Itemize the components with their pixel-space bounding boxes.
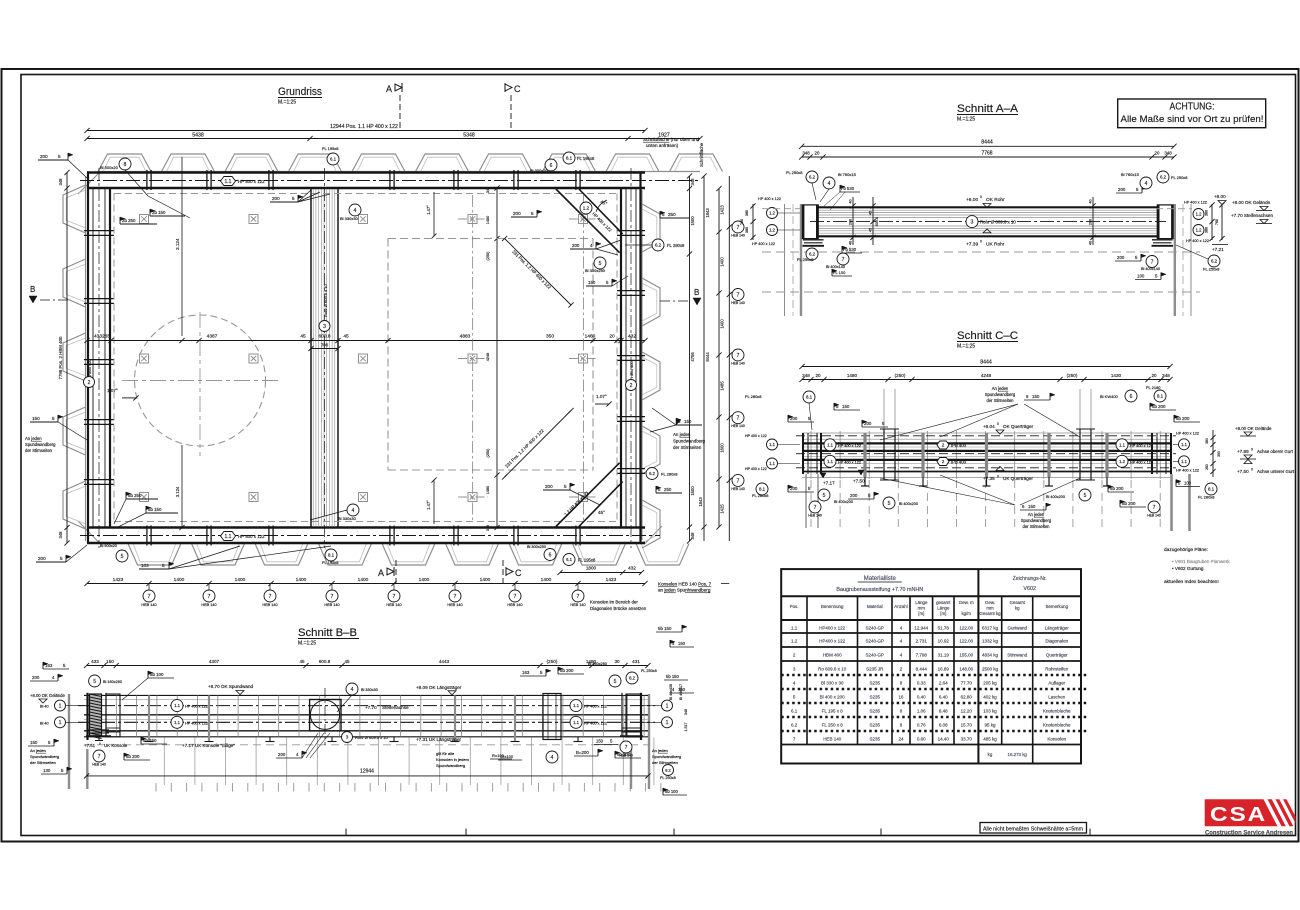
svg-text:348: 348 <box>58 531 63 539</box>
svg-text:1423: 1423 <box>720 205 725 215</box>
svg-text:+7.31 UK Längsträger: +7.31 UK Längsträger <box>416 737 462 742</box>
svg-text:CSA: CSA <box>1210 803 1267 826</box>
svg-text:4: 4 <box>354 208 357 214</box>
svg-text:150: 150 <box>1028 504 1036 509</box>
table column lines <box>806 596 808 744</box>
svg-text:0: 0 <box>1251 448 1253 452</box>
svg-text:7: 7 <box>1151 259 1154 265</box>
svg-text:+8.00: +8.00 <box>966 197 978 203</box>
svg-text:6.08: 6.08 <box>939 722 948 727</box>
svg-text:200: 200 <box>40 154 48 159</box>
svg-text:0: 0 <box>997 422 999 426</box>
plan bottom dimension line with HEB140 consoles <box>87 583 645 585</box>
svg-text:265: 265 <box>102 334 110 340</box>
svg-text:12944 Pos. 1.1 HP 400 x 122: 12944 Pos. 1.1 HP 400 x 122 <box>330 124 398 130</box>
svg-text:+8.00 OK Gelände: +8.00 OK Gelände <box>30 693 65 698</box>
fold marks bottom edge <box>345 829 347 836</box>
svg-text:R=100: R=100 <box>492 753 505 758</box>
C-C hexagon labels in chords <box>937 441 949 449</box>
svg-text:kg: kg <box>1015 605 1020 610</box>
svg-text:+7.89: +7.89 <box>1237 449 1249 454</box>
svg-text:Bl 400 x 200: Bl 400 x 200 <box>820 694 846 699</box>
svg-text:1430: 1430 <box>1111 373 1122 378</box>
circled 8.1 bottom <box>325 549 337 561</box>
svg-text:+7.50: +7.50 <box>853 479 865 484</box>
svg-text:250: 250 <box>664 487 672 492</box>
svg-text:8.1: 8.1 <box>806 395 813 400</box>
svg-text:UK Konsole: UK Konsole <box>104 743 128 748</box>
svg-text:Steifenachse: Steifenachse <box>382 705 409 710</box>
svg-text:M.=1:25: M.=1:25 <box>298 641 316 647</box>
svg-text:40: 40 <box>1089 241 1093 245</box>
svg-text:0: 0 <box>1251 468 1253 472</box>
C-C circled labels right outside <box>1179 439 1190 450</box>
svg-text:4443: 4443 <box>439 659 450 664</box>
circle crosshair <box>122 380 280 382</box>
svg-text:4307: 4307 <box>209 659 220 664</box>
svg-text:M.=1:25: M.=1:25 <box>278 100 296 106</box>
svg-text:5: 5 <box>823 493 826 499</box>
svg-text:1.47°: 1.47° <box>426 205 431 215</box>
svg-text:6.1: 6.1 <box>566 557 572 562</box>
svg-text:7: 7 <box>842 257 845 263</box>
svg-text:348: 348 <box>802 373 810 378</box>
svg-text:kg/m: kg/m <box>961 611 971 616</box>
B-B top dimension row <box>87 665 648 667</box>
svg-text:HP 400 x 122: HP 400 x 122 <box>1176 469 1199 473</box>
small angle dims 1.47 <box>433 192 435 236</box>
svg-text:HP 400 x 122: HP 400 x 122 <box>584 705 607 709</box>
plan mid dimension line <box>87 340 645 342</box>
B-B left console detail <box>106 694 120 737</box>
svg-text:150: 150 <box>678 641 686 646</box>
svg-text:150: 150 <box>32 416 40 421</box>
svg-text:C: C <box>515 568 522 578</box>
svg-text:FL 250x8: FL 250x8 <box>1171 175 1188 180</box>
svg-text:HP400 x 122: HP400 x 122 <box>819 625 846 630</box>
svg-text:Knotenbleche: Knotenbleche <box>1043 722 1071 727</box>
svg-text:Construction Service Andresen: Construction Service Andresen <box>1205 830 1293 837</box>
svg-text:5b 150: 5b 150 <box>666 674 679 679</box>
svg-text:C: C <box>514 84 521 94</box>
svg-text:348: 348 <box>58 178 63 186</box>
svg-text:An jeden: An jeden <box>30 748 46 753</box>
svg-text:3.124: 3.124 <box>175 486 180 497</box>
svg-text:+7.17: +7.17 <box>823 481 835 486</box>
svg-text:FL 280x8: FL 280x8 <box>661 472 678 477</box>
svg-text:S240-GP: S240-GP <box>866 652 885 657</box>
svg-text:1.1: 1.1 <box>827 459 833 464</box>
svg-text:HP 400 x 122: HP 400 x 122 <box>185 705 208 709</box>
svg-text:1.1: 1.1 <box>769 461 775 466</box>
A-A ground dashes right short <box>1156 208 1192 210</box>
svg-text:OK Querträger: OK Querträger <box>1003 424 1034 429</box>
svg-text:+7.51: +7.51 <box>84 743 96 748</box>
svg-text:An jeden: An jeden <box>25 436 42 441</box>
svg-text:6.2: 6.2 <box>791 722 798 727</box>
svg-text:Schnitt C–C: Schnitt C–C <box>957 330 1018 342</box>
svg-text:+7.50: +7.50 <box>1237 469 1249 474</box>
svg-text:(250): (250) <box>547 659 558 664</box>
A-A circled labels bottom left <box>806 248 818 260</box>
svg-text:M.=1:25: M.=1:25 <box>957 117 975 123</box>
svg-text:Materialliste: Materialliste <box>864 576 897 582</box>
svg-text:1.07°: 1.07° <box>107 388 118 393</box>
svg-text:Diagonalen: Diagonalen <box>1045 638 1068 643</box>
svg-text:1.2: 1.2 <box>791 638 798 643</box>
svg-text:Spundwandberg: Spundwandberg <box>1021 518 1052 523</box>
svg-text:1332 kg: 1332 kg <box>982 638 999 643</box>
svg-text:HBM 400: HBM 400 <box>629 361 634 378</box>
A-A right 1.2 circles and dims <box>1193 209 1204 220</box>
svg-text:Bemerkung: Bemerkung <box>1046 604 1069 609</box>
svg-text:• V602 Gurtung: • V602 Gurtung <box>1172 566 1204 571</box>
svg-text:• V601 Baugruben Planwerk: • V601 Baugruben Planwerk <box>1172 559 1230 564</box>
svg-text:103: 103 <box>141 563 149 568</box>
svg-text:FL 280x8: FL 280x8 <box>1198 495 1215 500</box>
partition dash line x497 <box>496 188 498 528</box>
svg-text:6317 kg: 6317 kg <box>982 625 999 630</box>
svg-text:8.444: 8.444 <box>916 666 928 671</box>
svg-text:gesamt: gesamt <box>936 600 951 605</box>
C-C chord beams <box>802 432 1170 434</box>
svg-text:7: 7 <box>577 594 580 600</box>
svg-text:IPB 400: IPB 400 <box>951 460 967 465</box>
svg-text:4: 4 <box>352 508 355 514</box>
anchor plate symbols grid <box>140 215 149 224</box>
dashed circle opening <box>135 315 266 446</box>
left column label 2 <box>84 377 95 388</box>
svg-text:7: 7 <box>737 292 740 298</box>
svg-text:150: 150 <box>588 280 596 285</box>
svg-text:1.517: 1.517 <box>684 723 688 732</box>
svg-text:HP 400 x 122: HP 400 x 122 <box>238 179 265 184</box>
svg-text:aktuellen Index beachten!: aktuellen Index beachten! <box>1164 579 1219 585</box>
svg-text:5: 5 <box>614 679 617 685</box>
svg-text:0.40: 0.40 <box>917 694 926 699</box>
svg-text:1.1: 1.1 <box>225 179 232 185</box>
svg-text:40: 40 <box>849 199 853 203</box>
svg-text:Bl 400x140: Bl 400x140 <box>826 265 845 269</box>
svg-text:Rohr Ø 609.6 x 10: Rohr Ø 609.6 x 10 <box>323 284 328 317</box>
svg-text:122.00: 122.00 <box>959 638 973 643</box>
plan bottom beam Pos 1.1 <box>87 526 645 529</box>
svg-text:40: 40 <box>1089 199 1093 203</box>
svg-text:200: 200 <box>513 211 521 216</box>
svg-text:7: 7 <box>331 594 334 600</box>
svg-text:200: 200 <box>272 196 280 201</box>
svg-text:Spundwandberg: Spundwandberg <box>436 763 465 768</box>
svg-text:1423: 1423 <box>113 577 124 583</box>
dashed opening rectangle right half <box>388 238 593 240</box>
B-B thicker gray posts <box>148 695 150 741</box>
plan top dimension line segments 5438 5348 1927 <box>87 138 700 140</box>
section marker C top <box>505 84 512 91</box>
svg-text:Knotenbleche: Knotenbleche <box>1043 708 1071 713</box>
svg-text:1400: 1400 <box>419 577 430 583</box>
svg-text:dazugehörige Pläne:: dazugehörige Pläne: <box>1164 547 1208 553</box>
svg-text:Bl 40: Bl 40 <box>40 705 49 709</box>
svg-text:Laschen: Laschen <box>1048 694 1066 699</box>
svg-text:FL 195x8: FL 195x8 <box>322 146 339 151</box>
svg-text:HEB 140: HEB 140 <box>386 603 401 607</box>
C-C right small dim <box>1212 430 1214 477</box>
svg-text:1400: 1400 <box>480 577 491 583</box>
svg-text:(250): (250) <box>486 448 490 458</box>
svg-text:12.944: 12.944 <box>914 625 928 630</box>
svg-text:V602: V602 <box>1023 586 1036 592</box>
svg-text:1.07°: 1.07° <box>596 394 607 399</box>
svg-text:UK Querträger: UK Querträger <box>1003 476 1033 481</box>
svg-text:Bl 300x20: Bl 300x20 <box>530 168 549 173</box>
svg-text:8.1: 8.1 <box>1208 487 1215 492</box>
svg-text:155.00: 155.00 <box>959 652 973 657</box>
svg-text:1.1: 1.1 <box>769 442 775 447</box>
svg-text:1600: 1600 <box>720 443 725 453</box>
svg-text:7: 7 <box>454 594 457 600</box>
svg-text:280: 280 <box>1205 464 1209 470</box>
left column Pos 2 HEB 400 <box>87 173 89 544</box>
console circles right side <box>732 221 744 233</box>
svg-text:15.70: 15.70 <box>961 722 973 727</box>
A-A pipe beam Pos 3 <box>818 206 1158 208</box>
C-C stiffener strips <box>863 433 866 477</box>
svg-text:7: 7 <box>514 594 517 600</box>
svg-text:HEB 140: HEB 140 <box>447 603 462 607</box>
strut axis dash lines right half <box>472 195 474 520</box>
dim 1800 432 bottom right <box>560 572 642 574</box>
svg-text:FL 250x8: FL 250x8 <box>660 776 676 780</box>
svg-text:Bl 330x30: Bl 330x30 <box>361 688 378 692</box>
svg-text:760: 760 <box>1215 219 1219 225</box>
svg-text:HEB 140: HEB 140 <box>1147 514 1161 518</box>
hexagon label 1.1 bottom beam <box>221 532 236 541</box>
plan leader labels top left <box>119 158 131 170</box>
svg-text:8.48: 8.48 <box>939 708 948 713</box>
svg-text:+8.00 OK Gelände: +8.00 OK Gelände <box>1235 426 1272 431</box>
svg-text:A: A <box>378 568 384 578</box>
svg-text:0.76: 0.76 <box>917 722 926 727</box>
svg-text:16.273 kg: 16.273 kg <box>1008 752 1028 757</box>
svg-text:+7.35: +7.35 <box>983 476 995 481</box>
svg-text:432: 432 <box>628 334 636 340</box>
svg-text:8.2: 8.2 <box>665 767 671 772</box>
svg-text:200: 200 <box>38 556 46 561</box>
svg-text:1400: 1400 <box>235 577 246 583</box>
corner brace top-right Pos 1.2 <box>556 189 620 253</box>
svg-text:Querträger: Querträger <box>1046 652 1068 657</box>
svg-text:5438: 5438 <box>192 133 204 139</box>
C-C post extensions above band <box>883 389 885 430</box>
svg-text:1800: 1800 <box>586 566 597 571</box>
svg-text:7: 7 <box>393 594 396 600</box>
svg-text:348: 348 <box>1162 373 1170 378</box>
svg-text:Alle Maße sind vor Ort zu prüf: Alle Maße sind vor Ort zu prüfen! <box>1121 114 1264 125</box>
svg-text:200: 200 <box>850 493 858 498</box>
svg-text:mm: mm <box>986 605 994 610</box>
svg-text:7768: 7768 <box>981 151 992 157</box>
section marker C bottom <box>506 568 513 575</box>
svg-text:33.70: 33.70 <box>961 736 973 741</box>
svg-text:An jeden: An jeden <box>652 748 668 753</box>
svg-text:+7.39: +7.39 <box>966 242 978 248</box>
brace dim diagonal 231 Pos 1.2 <box>505 239 571 306</box>
svg-text:1480: 1480 <box>486 486 490 494</box>
table row lines <box>781 619 1081 621</box>
svg-text:kg: kg <box>988 752 993 757</box>
svg-text:Bl 300x250: Bl 300x250 <box>585 268 606 273</box>
svg-text:14.40: 14.40 <box>938 736 950 741</box>
svg-text:45°: 45° <box>598 510 605 515</box>
svg-text:200: 200 <box>572 243 580 248</box>
sheet pile wall left band <box>63 185 86 233</box>
svg-text:1500: 1500 <box>690 486 695 496</box>
svg-text:(250): (250) <box>895 373 906 378</box>
svg-text:8444: 8444 <box>980 360 992 366</box>
svg-text:HP 400 x 122: HP 400 x 122 <box>752 242 775 246</box>
C-C dimension 8444 <box>802 366 1170 368</box>
svg-text:Konsolen in jedem: Konsolen in jedem <box>436 757 470 762</box>
svg-text:Spundwandberg: Spundwandberg <box>25 442 56 447</box>
dim 700 below pipe column <box>311 348 338 350</box>
svg-text:S235: S235 <box>870 680 881 685</box>
svg-text:FL 195x8: FL 195x8 <box>322 560 339 565</box>
svg-text:Benennung: Benennung <box>821 604 844 609</box>
svg-text:6.40: 6.40 <box>939 694 948 699</box>
svg-text:150: 150 <box>30 740 38 745</box>
CSA logo stripes <box>1268 799 1286 826</box>
svg-text:62.80: 62.80 <box>961 694 973 699</box>
sheet pile wall top band <box>98 154 151 172</box>
svg-text:S235: S235 <box>870 694 881 699</box>
svg-text:S235: S235 <box>870 722 881 727</box>
svg-text:1: 1 <box>666 703 669 709</box>
svg-text:4: 4 <box>351 687 354 693</box>
svg-text:Spundwandberg: Spundwandberg <box>985 392 1016 397</box>
svg-text:der Stirnseiten: der Stirnseiten <box>652 760 678 765</box>
svg-text:Bl 500x20: Bl 500x20 <box>100 165 119 170</box>
svg-text:Bl 500x20: Bl 500x20 <box>100 544 117 548</box>
svg-text:IPB 400: IPB 400 <box>951 443 967 448</box>
svg-text:0: 0 <box>980 240 982 244</box>
svg-text:Stirnwand: Stirnwand <box>1007 652 1028 657</box>
A-A dimension 8444 <box>802 145 1174 147</box>
svg-text:Bl 300x250: Bl 300x250 <box>527 545 546 549</box>
svg-text:HEB 140: HEB 140 <box>619 754 633 758</box>
svg-text:150: 150 <box>678 687 686 692</box>
svg-text:20: 20 <box>815 151 820 156</box>
C-C posts <box>883 429 885 480</box>
svg-text:HP 400 x 122: HP 400 x 122 <box>185 721 208 725</box>
svg-text:200: 200 <box>278 752 286 757</box>
right column Pos 2 <box>620 188 622 528</box>
svg-text:150: 150 <box>1032 394 1040 399</box>
svg-text:8.1: 8.1 <box>328 553 335 558</box>
svg-text:2500 kg: 2500 kg <box>982 666 999 671</box>
svg-text:Bl 760x15: Bl 760x15 <box>838 172 857 177</box>
svg-text:FL 280x8: FL 280x8 <box>752 493 769 498</box>
svg-text:1.1: 1.1 <box>1181 442 1187 447</box>
svg-text:OK Rohr: OK Rohr <box>986 197 1005 203</box>
svg-text:Rohr Ø 609.6 x 10: Rohr Ø 609.6 x 10 <box>980 220 1016 225</box>
svg-text:5: 5 <box>162 563 165 568</box>
svg-text:7.798: 7.798 <box>916 652 928 657</box>
C-C dimension segment row <box>802 379 1170 381</box>
console circles Pos 7 row <box>143 590 155 602</box>
svg-text:+7.21: +7.21 <box>1212 247 1224 252</box>
svg-text:200: 200 <box>1117 255 1125 260</box>
svg-text:3: 3 <box>346 735 349 740</box>
svg-text:Bl 400x200: Bl 400x200 <box>834 500 853 504</box>
svg-text:1400: 1400 <box>358 577 369 583</box>
svg-text:2: 2 <box>942 443 945 448</box>
brace dim diagonal bottom 231 <box>505 411 571 478</box>
svg-text:20: 20 <box>1155 151 1160 156</box>
svg-text:5: 5 <box>121 554 124 560</box>
svg-text:Schnittfläche: Schnittfläche <box>699 142 704 167</box>
CSA logo red parallelogram <box>1205 799 1278 826</box>
A-A support columns gray left <box>784 204 786 316</box>
svg-text:Bl 40: Bl 40 <box>40 721 49 725</box>
svg-text:HEB 140: HEB 140 <box>570 603 585 607</box>
svg-text:[m]: [m] <box>918 611 924 616</box>
svg-text:77.70: 77.70 <box>961 680 973 685</box>
svg-text:7: 7 <box>98 754 101 760</box>
svg-text:+8.70 OK Spundwand: +8.70 OK Spundwand <box>208 684 254 689</box>
svg-text:150: 150 <box>842 404 850 409</box>
svg-text:250: 250 <box>668 212 676 217</box>
B-B right end block <box>640 693 642 740</box>
svg-text:12944: 12944 <box>360 769 374 775</box>
left column stiffeners <box>84 230 114 232</box>
svg-text:Bl 160x260: Bl 160x260 <box>103 680 122 684</box>
svg-text:HEB 140: HEB 140 <box>201 603 216 607</box>
svg-text:der Stirnseiten: der Stirnseiten <box>30 760 56 765</box>
svg-text:mm: mm <box>918 605 926 610</box>
svg-text:5: 5 <box>531 211 534 216</box>
svg-text:150: 150 <box>684 419 692 424</box>
svg-text:432: 432 <box>628 566 636 571</box>
svg-text:Bl 160x260: Bl 160x260 <box>588 662 607 666</box>
svg-text:ACHTUNG:: ACHTUNG: <box>1170 102 1215 113</box>
svg-text:600.8: 600.8 <box>318 334 330 340</box>
svg-text:A: A <box>386 84 392 94</box>
svg-text:Länge: Länge <box>915 600 928 605</box>
svg-text:S240-GP: S240-GP <box>866 625 885 630</box>
svg-text:Gurtwand: Gurtwand <box>1007 625 1027 630</box>
B-B band horizontal lines <box>84 694 648 696</box>
svg-text:5: 5 <box>93 679 96 685</box>
svg-text:200: 200 <box>849 219 853 225</box>
svg-text:4248: 4248 <box>486 353 490 361</box>
svg-text:348: 348 <box>486 525 490 531</box>
svg-text:FL 250x8: FL 250x8 <box>786 170 803 175</box>
svg-text:45: 45 <box>343 334 349 340</box>
svg-text:Alle nicht bemaßten Schweißnäh: Alle nicht bemaßten Schweißnähte a=5mm <box>983 827 1083 833</box>
svg-text:der Stirnseiten: der Stirnseiten <box>1023 524 1051 529</box>
svg-text:Bl 400x140: Bl 400x140 <box>1141 267 1160 271</box>
svg-text:1.2: 1.2 <box>1119 459 1125 464</box>
table header band <box>781 595 1081 597</box>
svg-text:6: 6 <box>550 163 553 169</box>
B-B labels middle <box>342 732 353 743</box>
svg-text:7: 7 <box>737 478 740 484</box>
svg-text:FL 280x8: FL 280x8 <box>667 243 685 248</box>
svg-text:3: 3 <box>971 220 974 226</box>
svg-text:2.731: 2.731 <box>916 638 928 643</box>
svg-text:Spundwandberg: Spundwandberg <box>652 754 681 759</box>
svg-text:Bl 330x30: Bl 330x30 <box>340 216 359 221</box>
